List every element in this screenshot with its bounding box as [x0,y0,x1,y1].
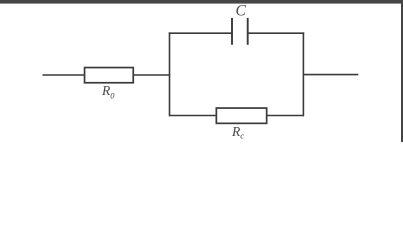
capacitor C right plate [247,18,249,45]
node B: right junction vertical [302,32,304,116]
wire: right lead out [303,74,358,76]
resistor R0 [85,68,134,83]
svg-text:R0: R0 [101,83,115,100]
resistor Rc [216,108,266,123]
wire: top branch left of C [169,32,232,34]
capacitor C left plate [231,18,233,45]
frame top bar [0,0,403,4]
node A: left junction vertical [169,32,171,116]
svg-text:Rc: Rc [231,124,244,141]
wire: bottom branch left of Rc [170,115,217,117]
frame right bar [401,0,403,142]
wire: top branch right of C [248,32,305,34]
wire: R0 to node A [134,74,171,76]
wire: left lead into R0 [43,74,85,76]
wire: bottom branch right of Rc [267,115,304,117]
svg-text:C: C [236,2,247,19]
